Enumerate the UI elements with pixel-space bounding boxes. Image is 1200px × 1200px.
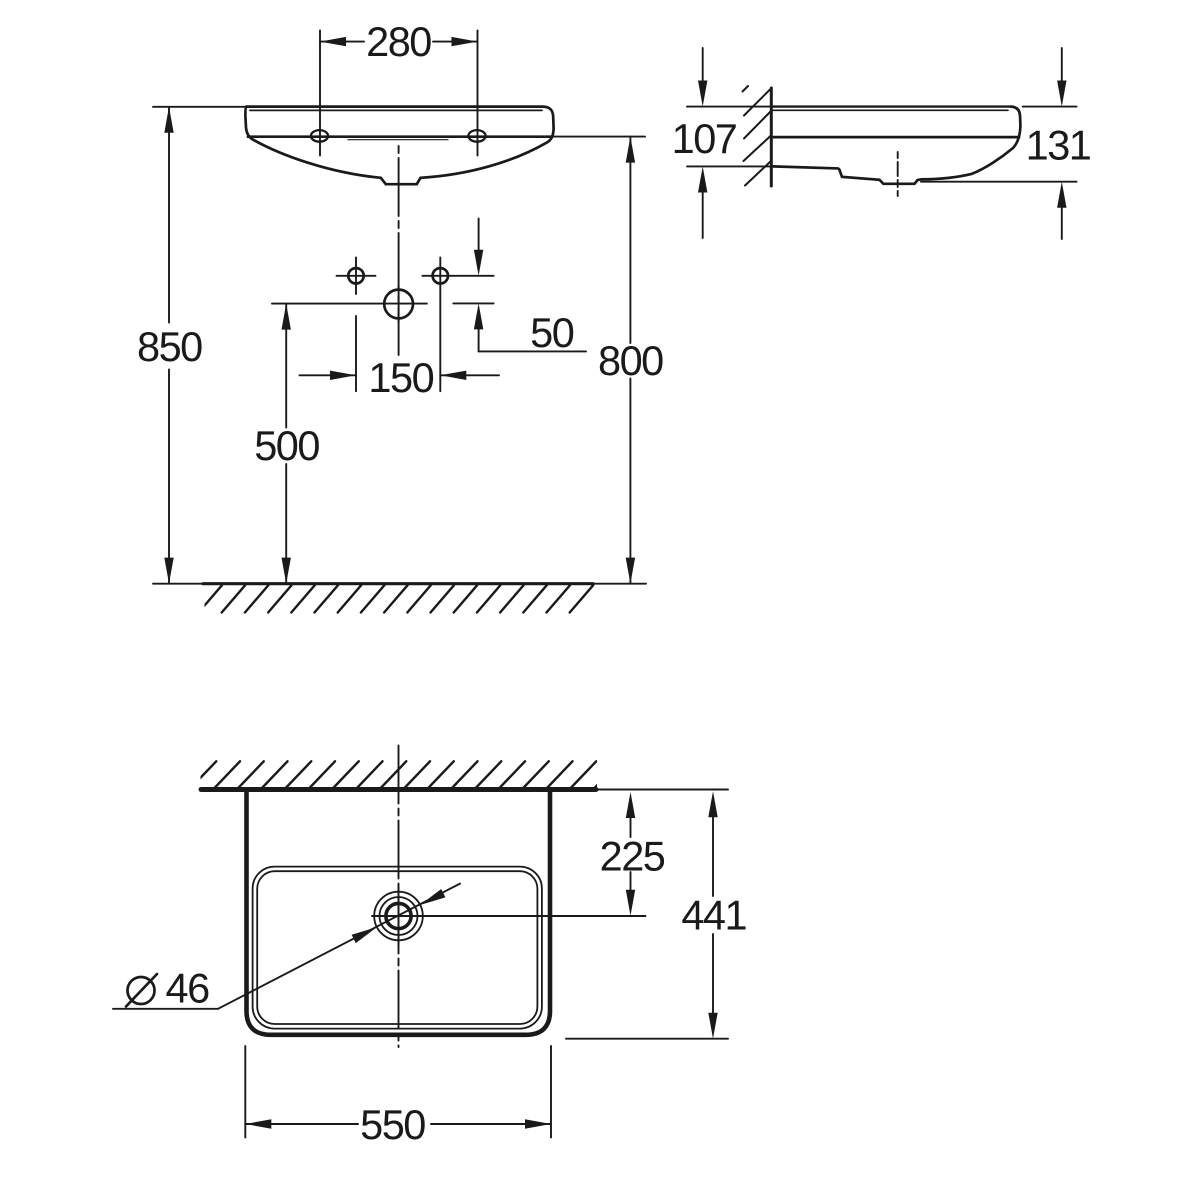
svg-text:150: 150 [368,354,433,401]
basin front outline [245,107,553,185]
dim 500 arrow down [282,558,291,584]
dim 50 lower line [478,329,480,351]
svg-text:550: 550 [360,1101,425,1148]
floor line thick [203,582,593,585]
drain middle circle top view [380,897,418,935]
dim 850 extension line [153,106,246,108]
dim 800 arrow down [626,558,635,584]
dim 225 arrow up [626,792,635,818]
drain outer circle top view [374,892,423,941]
drain crosshair and dim 225 reference line [372,915,646,917]
dia 46 symbol [128,977,155,1004]
dim 107 bottom extension line [687,165,780,167]
dim 50 shelf line [479,350,586,352]
basin front rim inner top line [250,109,542,111]
dim 800 arrow up [626,137,635,163]
dim 441 arrow up [708,791,717,817]
faucet hole left circle [348,268,363,283]
dim 107 top extension line [687,106,772,108]
dim 550 arrow left [245,1119,271,1128]
dim 280 line [320,41,478,43]
dim 800 extension line [554,136,645,138]
basin top view inner rim inner line [257,871,537,1024]
dim 150 extension lines [356,302,440,391]
dim 280 arrow left [320,37,346,46]
dim 550 line [245,1123,551,1125]
drain hole front circle [384,290,413,319]
center line side view [897,152,899,196]
faucet hole right crosshair [439,258,441,303]
dim 441 line [712,817,714,1013]
dim 150 line left [300,374,357,376]
dim 150 arrow right [440,371,466,380]
faucet hole left crosshair [337,258,376,295]
svg-text:107: 107 [672,115,737,162]
dim 500 reference line through drain [272,303,427,305]
dim 800 line [629,137,631,584]
dia 46 arrow upper right [420,889,445,905]
faucet hole right circle [433,268,448,283]
dim 225 line upper [630,818,632,837]
dim 550 arrow right [525,1119,551,1128]
dim 131 arrow up [1057,182,1066,208]
basin side outline right and bottom [773,107,1021,184]
mounting hole right [468,130,485,142]
center line front view [398,146,400,355]
dim 131 bottom extension line [921,181,1077,183]
dim 850 line [168,107,170,584]
dim 280 arrow right [452,37,478,46]
dim 225 line lower [630,872,632,890]
wall line top view thin extension [596,789,728,791]
floor line thin [153,583,646,585]
dim 50 arrow down [474,250,483,276]
dim 500 arrow up [282,304,291,330]
dim 131 arrow down [1061,48,1063,82]
basin front faint inner line [348,139,448,141]
svg-text:500: 500 [254,422,319,469]
center line top view [398,746,400,1048]
svg-text:50: 50 [530,309,574,356]
basin front mid line [248,135,552,138]
dim 131 top extension line [1023,106,1077,108]
basin top view inner rim outer line [253,867,542,1029]
dim 850 arrow down [164,558,173,584]
mounting hole left [311,130,328,142]
dim 50 upper line [478,218,480,251]
svg-text:46: 46 [166,965,210,1012]
drain front crosshair vertical [398,286,400,322]
svg-text:800: 800 [598,337,663,384]
dim 150 arrow left [330,371,356,380]
dim 107 arrow up [698,167,707,193]
dim 50 arrow up [474,303,483,329]
wall hatching side view [743,86,772,186]
basin top view outer outline [247,791,551,1035]
drain top view crosshair vertical [398,886,400,946]
dim 280 extension lines [320,31,478,156]
dim 500 line [285,304,287,584]
svg-text:441: 441 [681,892,746,939]
svg-text:280: 280 [366,18,431,65]
dia 46 leader line [218,884,460,1009]
svg-text:225: 225 [600,833,665,880]
dim 850 arrow up [164,107,173,133]
dim 225 arrow down [626,890,635,916]
dim 107 arrow down [702,48,704,82]
wall line top view thick [201,787,596,792]
dim 150 line right [440,374,499,376]
dim 50 lower reference line [453,302,493,304]
dia 46 arrow lower left [352,927,377,943]
basin side top rim line [773,105,1011,107]
wall line side view [770,88,773,186]
dim 441 arrow down [708,1013,717,1039]
dim 550 extension lines [245,1046,551,1138]
dim 50 upper reference line [422,275,493,277]
drain inner circle top view [386,903,411,928]
svg-text:850: 850 [137,323,202,370]
basin side rim second line [773,109,1008,111]
dia 46 shelf line [113,1008,218,1010]
basin side mid line [773,136,1019,139]
dim 441 bottom reference line [566,1038,728,1040]
svg-text:131: 131 [1026,122,1091,169]
